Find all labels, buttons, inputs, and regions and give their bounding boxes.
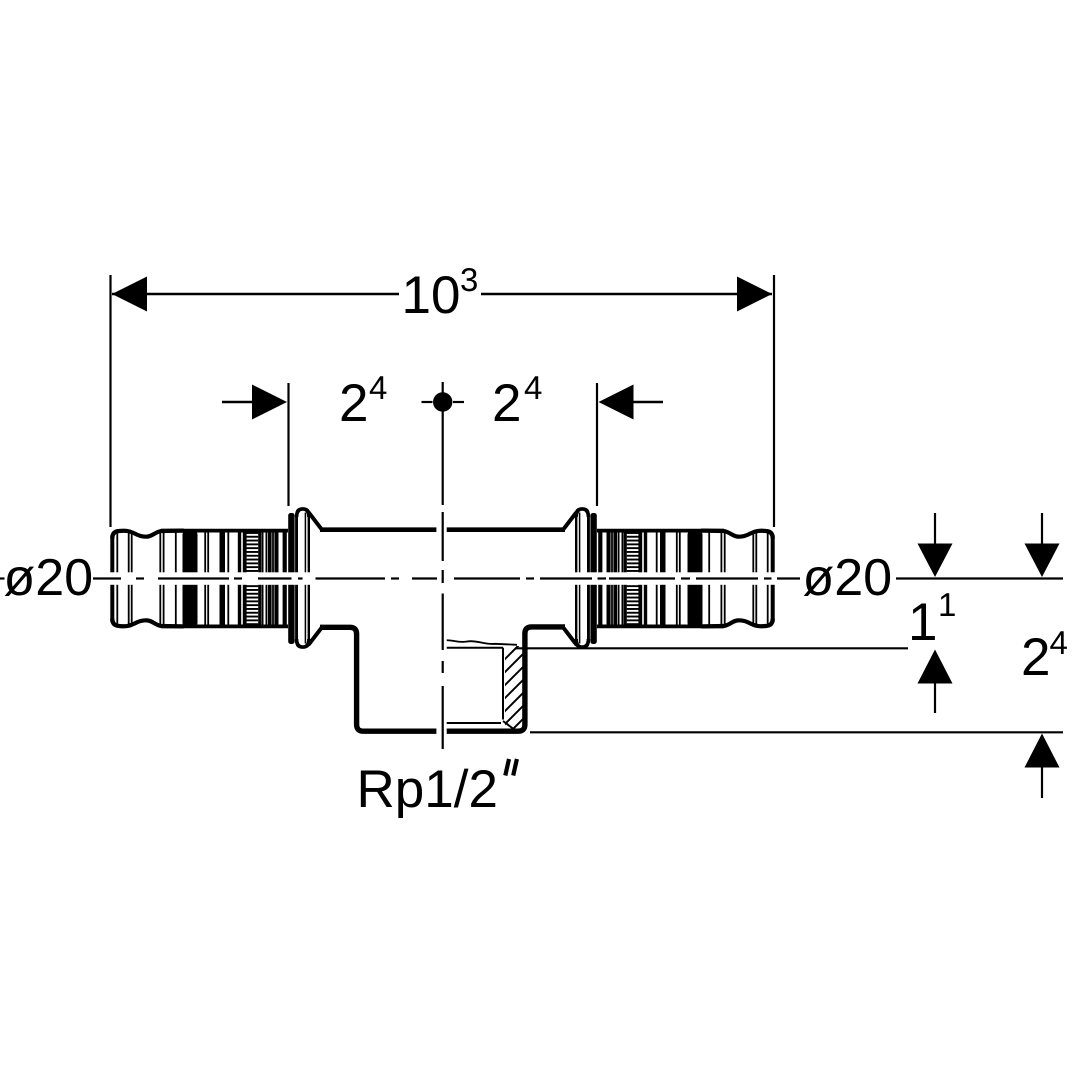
break (wavy) line [440,640,517,645]
barrel top edge [320,527,565,532]
extension line left (24 dim) [287,383,289,506]
extension line right (103 dim) [773,275,775,527]
extension line left (103 dim) [109,275,111,527]
diameter label text ø20 left [5,559,91,596]
thread inner wall [502,648,504,720]
down arrow (11 dim) [934,513,936,545]
arrowhead left (103 dim) [112,277,147,312]
line B [516,647,908,649]
barrel bottom + branch outline [320,627,565,731]
dimension superscript 3 (of 103) [461,268,477,291]
right outside arrow [633,401,664,404]
dimension superscript 4 [1050,631,1067,654]
left outside arrow [222,401,253,404]
horizontal centerline halo [95,572,783,585]
dimension value text 2 [495,384,519,421]
dimension superscript 4 [370,376,387,399]
down arrow (24 right dim) [1041,513,1043,545]
thread size label text Rp1/2 [361,769,495,818]
dimension value text 10 (103 main) [406,276,459,314]
line C [530,731,1063,733]
extension line right (24 dim) [596,383,598,506]
dimension line 103, right segment [481,293,772,296]
dimension line 103, left segment [112,293,399,296]
dimension value text 2 [342,384,366,421]
hatch band [500,636,528,755]
diameter label text ø20 right [804,559,890,596]
dimension superscript 4 [525,376,542,399]
dimension value text 2 (24 right dim) [1024,638,1048,675]
arrowhead right (103 dim) [737,277,772,312]
right-side dimension: line A (center ext) [896,577,1063,579]
up arrow under line C [1025,734,1060,768]
thread bottom line [444,722,502,724]
dimension superscript 1 (of 11) [941,593,955,616]
center mark dot [433,392,452,411]
vertical branch centreline [442,382,444,749]
left press connector (sleeve, rings, knurl, flange) [112,509,322,647]
chamfer [503,721,516,731]
right press connector (mirror) [563,509,773,647]
vertical centerline halo [436,385,446,746]
up arrow under line B [918,650,953,684]
dimension value text 1 (11 dim) [912,604,935,640]
thread top line [444,647,504,649]
horizontal centreline [0,577,800,579]
